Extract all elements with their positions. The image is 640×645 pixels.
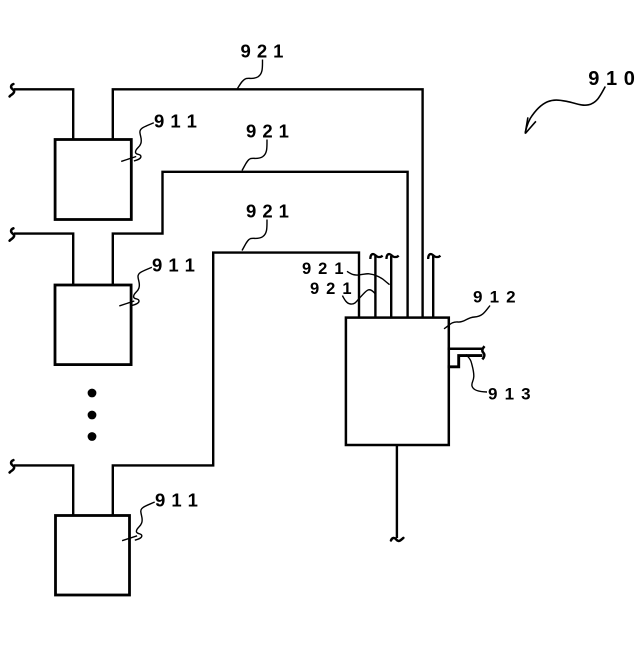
svg-text:9 1 2: 9 1 2	[473, 288, 517, 307]
svg-text:9 1 1: 9 1 1	[155, 490, 198, 511]
leader for 911 (middle)	[132, 267, 152, 305]
wire from external source (top-left)	[14, 89, 73, 139]
break squiggle (top-left wire end)	[10, 84, 15, 96]
svg-text:9 1 3: 9 1 3	[488, 385, 532, 404]
unit block 911 (middle)	[55, 285, 131, 365]
leader for 913	[466, 355, 487, 393]
connector 913 (lower stepped contact)	[448, 356, 483, 367]
unit block 911 (bottom)	[56, 516, 130, 596]
leader for 911 (top)	[134, 123, 154, 161]
svg-text:9 1 1: 9 1 1	[154, 111, 197, 132]
break squiggle (middle-left wire end)	[10, 228, 15, 240]
leader for 921 #1	[238, 60, 263, 89]
cut wire into 912 (right, with break top)	[428, 254, 440, 318]
cut wire 921 into 912 (second, with break top)	[386, 254, 398, 318]
wire from bottom of 912	[396, 445, 398, 538]
svg-text:9 1 0: 9 1 0	[588, 68, 635, 90]
leader for 921 #3	[242, 220, 267, 251]
svg-text:9 2 1: 9 2 1	[246, 201, 289, 222]
svg-text:9 2 1: 9 2 1	[310, 280, 353, 298]
wire 921 #1 (top unit to 912)	[113, 89, 423, 318]
cut wire 921 into 912 (left, with break top)	[370, 254, 382, 318]
svg-text:9 2 1: 9 2 1	[302, 260, 345, 278]
ellipsis dots (repeated units)	[88, 389, 97, 441]
wire 921 #3 (bottom unit to 912)	[113, 253, 359, 516]
unit block 911 (top)	[55, 140, 131, 220]
leader for 921 #2	[242, 140, 267, 171]
wire 921 #2 (middle unit to 912)	[113, 172, 408, 318]
svg-text:9 2 1: 9 2 1	[241, 41, 284, 62]
arrow for 910	[525, 87, 605, 133]
break squiggle (bottom-left wire end)	[10, 460, 15, 472]
connector 913 (upper pin)	[448, 347, 484, 350]
control block 912	[346, 318, 449, 445]
wire from external source (bottom-left)	[14, 465, 73, 516]
connector 913 cut mark	[482, 346, 484, 359]
break squiggle (bottom wire end)	[391, 538, 403, 541]
leader for 912	[444, 306, 490, 329]
wire from external source (middle-left)	[14, 234, 73, 285]
svg-text:9 1 1: 9 1 1	[152, 255, 195, 276]
svg-text:9 2 1: 9 2 1	[246, 121, 289, 142]
leader for stacked upper 921	[347, 271, 390, 284]
leader for stacked lower 921	[342, 290, 375, 304]
leader for 911 (bottom)	[135, 502, 155, 540]
